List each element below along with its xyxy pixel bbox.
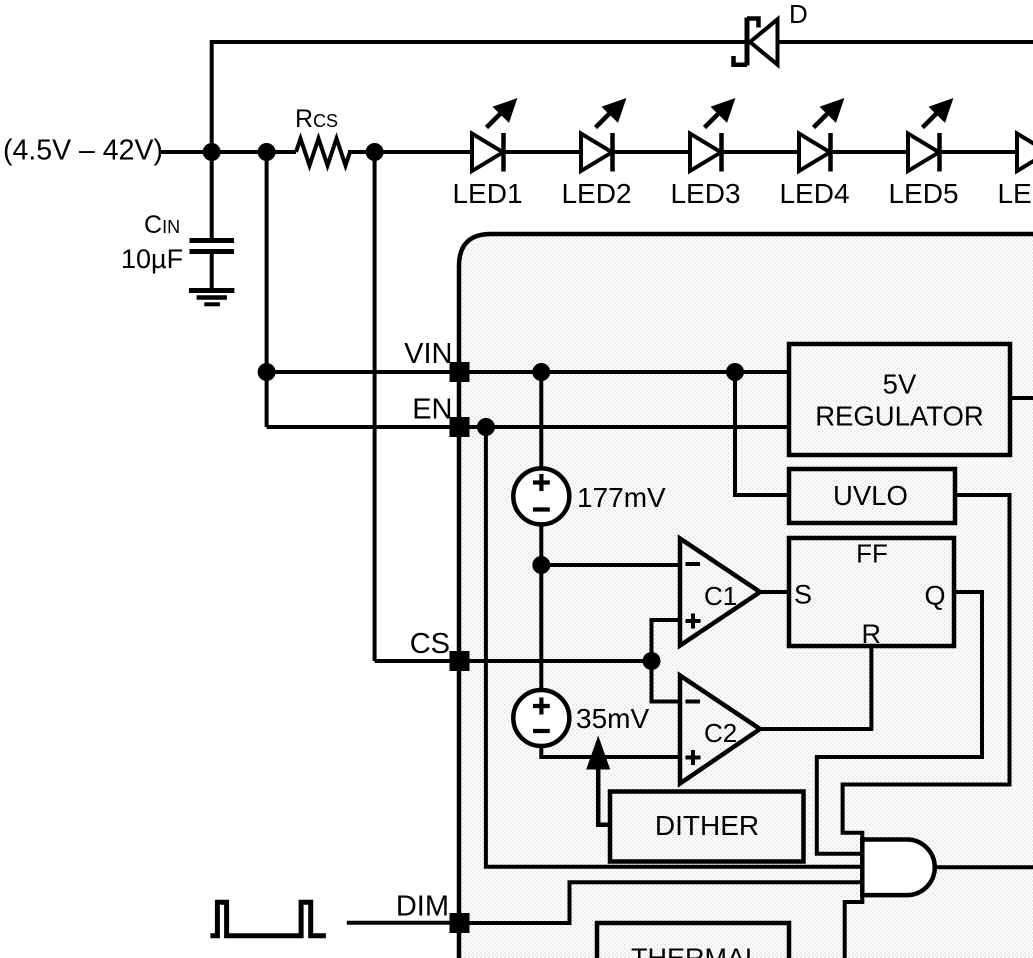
wire: C1 output to S xyxy=(760,590,789,594)
LED4 xyxy=(799,98,844,172)
pin EN xyxy=(450,417,470,437)
svg-text:UVLO: UVLO xyxy=(833,480,908,511)
svg-text:S: S xyxy=(794,580,812,610)
wire: EN branch down to AND gate xyxy=(486,427,862,867)
LED6 (clipped at right edge) xyxy=(1017,134,1033,172)
wire: CS horizontal xyxy=(375,659,652,663)
wire: AND gate output xyxy=(935,865,1033,869)
svg-text:(4.5V – 42V): (4.5V – 42V) xyxy=(3,135,163,167)
svg-text:LED5: LED5 xyxy=(888,178,958,209)
THERMAL box (clipped at bottom) xyxy=(597,923,789,958)
comparator C1 xyxy=(680,539,760,646)
LED5 xyxy=(908,98,953,172)
voltage source 35mV xyxy=(513,690,569,746)
svg-text:REGULATOR: REGULATOR xyxy=(815,401,984,432)
svg-text:VIN: VIN xyxy=(404,338,452,370)
UVLO box xyxy=(789,469,955,523)
svg-text:177mV: 177mV xyxy=(577,482,666,513)
node: VIN to UVLO xyxy=(726,363,744,381)
svg-text:THERMAL: THERMAL xyxy=(631,943,760,958)
node: EN branch xyxy=(477,418,495,436)
wire: reference source chain vertical xyxy=(539,372,543,469)
resistor RCS xyxy=(296,139,350,166)
wire: CS feed vertical from rail xyxy=(373,152,377,661)
svg-text:LED1: LED1 xyxy=(452,178,522,209)
wire: C1 non-inverting input from CS node xyxy=(652,620,681,661)
LED1 xyxy=(472,98,517,172)
svg-text:LED2: LED2 xyxy=(561,178,631,209)
svg-text:FF: FF xyxy=(856,539,888,569)
wire: VIN feed vertical xyxy=(265,152,269,427)
svg-text:D: D xyxy=(789,0,808,29)
wire: 5V regulator output xyxy=(1010,396,1033,400)
svg-text:C2: C2 xyxy=(704,718,737,748)
node: rail junction at riser xyxy=(203,143,221,161)
wire: input rail right of resistor through LED string xyxy=(348,150,1033,154)
node: rail junction at CS feed xyxy=(366,143,384,161)
5V REGULATOR box xyxy=(789,344,1010,455)
pin CS xyxy=(450,651,470,671)
wire: UVLO input from VIN xyxy=(735,372,789,495)
voltage source 177mV xyxy=(513,468,569,524)
svg-text:Q: Q xyxy=(924,581,945,611)
wire: input rail left segment xyxy=(160,150,296,154)
wire: UVLO output to AND gate xyxy=(843,495,1010,841)
svg-text:R: R xyxy=(862,619,882,649)
ground xyxy=(189,291,234,305)
LED2 xyxy=(581,98,626,172)
wire: top freewheel wire and riser xyxy=(212,42,1033,150)
AND gate U1 xyxy=(862,840,934,896)
svg-text:DITHER: DITHER xyxy=(655,810,759,841)
IC body outline (rounded top-left corner, clipped right/bottom) xyxy=(459,234,1033,958)
svg-text:DIM: DIM xyxy=(396,891,449,923)
node: CS tee xyxy=(643,652,661,670)
DITHER box xyxy=(610,792,804,862)
wire: Q output to AND gate xyxy=(817,592,982,854)
svg-text:EN: EN xyxy=(412,394,452,426)
wire: EN horizontal into 5V regulator xyxy=(267,425,789,429)
wire: VIN horizontal into 5V regulator xyxy=(267,370,789,374)
svg-text:LED3: LED3 xyxy=(670,178,740,209)
node: VIN tee xyxy=(258,363,276,381)
comparator C2 xyxy=(680,676,760,784)
svg-text:10µF: 10µF xyxy=(121,244,183,274)
wire: C2 output to R xyxy=(760,646,871,729)
svg-text:LED6: LED6 xyxy=(997,178,1033,209)
wire: DIM lead xyxy=(347,921,460,925)
wire: C2 inverting input from CS node xyxy=(652,661,681,702)
svg-text:LED4: LED4 xyxy=(779,178,849,209)
flip-flop FF box xyxy=(789,538,954,646)
svg-text:C1: C1 xyxy=(704,581,737,611)
node: C1 inverting input xyxy=(532,556,550,574)
wire: THERMAL to AND gate xyxy=(845,894,863,958)
wire: C1 inverting input xyxy=(541,563,680,567)
LED3 xyxy=(690,98,735,172)
schottky diode D xyxy=(734,18,778,66)
wire: DIM into AND gate xyxy=(460,882,863,923)
capacitor CIN xyxy=(190,152,235,289)
node: VIN to 177mV source xyxy=(532,363,550,381)
svg-text:35mV: 35mV xyxy=(576,703,649,734)
DITHER output arrow into C2 + wire xyxy=(598,763,610,825)
svg-text:5V: 5V xyxy=(883,369,917,400)
svg-text:CS: CS xyxy=(410,628,450,660)
node: rail junction at VIN feed xyxy=(258,143,276,161)
pin DIM xyxy=(450,913,470,933)
DIM pulse waveform xyxy=(210,902,326,936)
pin VIN xyxy=(450,362,470,382)
